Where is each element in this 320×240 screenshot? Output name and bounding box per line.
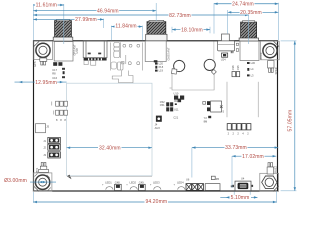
svg-text:17.02mm: 17.02mm [242,154,264,160]
svg-text:R8: R8 [52,71,56,75]
svg-text:+: + [174,183,176,186]
svg-text:C48: C48 [115,181,120,185]
svg-text:2: 2 [233,132,235,136]
svg-text:5.10mm: 5.10mm [231,195,250,201]
svg-text:C21: C21 [173,115,178,119]
svg-text:J2: J2 [43,146,46,150]
svg-text:LED1: LED1 [105,181,112,185]
svg-text:C49: C49 [139,181,144,185]
svg-text:32.40mm: 32.40mm [99,145,121,151]
svg-text:8: 8 [60,118,62,122]
svg-text:J3: J3 [43,153,46,157]
svg-text:8M: 8M [204,120,208,124]
svg-text:82.73mm: 82.73mm [169,13,191,19]
svg-text:Y2: Y2 [204,116,208,120]
svg-text:GPS ANT: GPS ANT [72,44,76,56]
svg-text:S: S [222,109,224,113]
svg-text:XXXX: XXXX [259,52,263,59]
svg-text:U10: U10 [174,92,179,96]
svg-text:+: + [126,183,128,186]
svg-text:11.61mm: 11.61mm [36,3,57,9]
svg-text:18.10mm: 18.10mm [181,27,203,33]
svg-text:LED4: LED4 [177,181,184,185]
svg-text:8: 8 [56,118,58,122]
svg-text:12.95mm: 12.95mm [35,80,57,86]
svg-text:C52: C52 [160,100,165,104]
svg-text:Ø3.00mm: Ø3.00mm [4,178,27,184]
svg-text:46.94mm: 46.94mm [97,8,119,14]
svg-text:L30: L30 [251,61,256,65]
svg-text:8: 8 [64,118,66,122]
svg-text:R14: R14 [174,99,179,103]
svg-text:U11: U11 [174,107,179,111]
svg-text:L3: L3 [251,73,254,77]
svg-text:+: + [150,183,152,186]
svg-text:C17: C17 [52,68,57,72]
svg-text:GPS: GPS [33,61,37,67]
svg-text:+: + [102,183,104,186]
svg-text:GNSS ANT: GNSS ANT [166,47,170,61]
svg-text:C36: C36 [231,65,235,70]
svg-text:2: 2 [237,132,239,136]
svg-text:U4: U4 [241,177,245,181]
svg-text:L20: L20 [159,62,164,66]
svg-text:2: 2 [228,132,230,136]
svg-text:20.35mm: 20.35mm [240,10,262,16]
svg-text:SPKR: SPKR [274,67,278,74]
svg-text:BUZZ: BUZZ [273,166,277,173]
svg-text:4: 4 [242,132,244,136]
svg-text:33.73mm: 33.73mm [225,145,247,151]
svg-text:R5: R5 [216,177,220,181]
svg-text:BT1: BT1 [35,167,39,172]
svg-text:11.84mm: 11.84mm [115,24,136,30]
svg-text:94.20mm: 94.20mm [145,199,167,205]
svg-text:J1: J1 [43,139,46,143]
svg-text:J5: J5 [46,125,49,129]
svg-text:LED2: LED2 [130,181,137,185]
svg-text:LED3: LED3 [153,181,160,185]
svg-text:27.99mm: 27.99mm [75,17,97,23]
svg-text:L4: L4 [251,67,254,71]
svg-text:U24: U24 [221,57,226,61]
svg-text:2: 2 [247,132,249,136]
svg-text:C51: C51 [160,103,165,107]
svg-text:PL5: PL5 [159,65,164,69]
svg-text:AUX: AUX [155,126,161,130]
svg-text:C35: C35 [236,65,240,70]
svg-text:57.05mm: 57.05mm [288,110,294,132]
svg-text:L19: L19 [159,69,164,73]
svg-text:U6: U6 [186,178,190,182]
svg-text:24.74mm: 24.74mm [232,2,254,8]
